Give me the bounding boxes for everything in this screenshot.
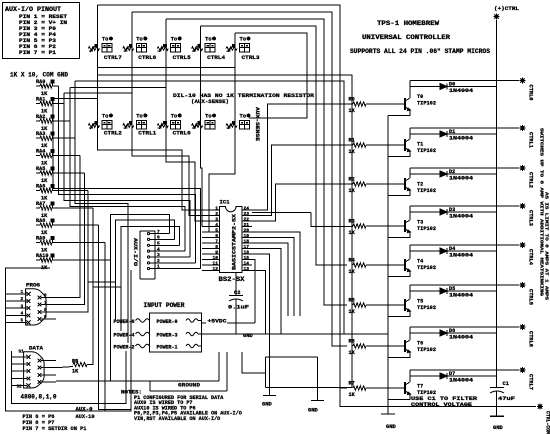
svg-text:(AUX-SENSE): (AUX-SENSE) [191,98,229,105]
svg-text:To: To [205,114,211,120]
svg-text:CTRL6: CTRL6 [138,55,156,61]
svg-text:15: 15 [244,255,250,261]
diode D1 1N4004 [410,133,497,135]
AUX-I/O pinout table box [3,3,80,59]
svg-text:2: 2 [157,258,160,264]
svg-text:CTRL2: CTRL2 [104,131,122,137]
svg-text:21: 21 [244,222,250,228]
terminal CTRL4 [520,244,526,246]
diode D2 1N4004 [410,173,497,175]
wire IC pin19 down [252,238,294,317]
input power box [150,313,202,352]
svg-text:1K: 1K [349,149,356,155]
wire AUX pin chain to POWER-6 row [115,220,174,320]
svg-text:1N4004: 1N4004 [449,335,473,341]
AUX-I/O pin 4 [150,250,185,252]
svg-text:INPUT POWER: INPUT POWER [144,302,185,309]
svg-text:+5VDC: +5VDC [208,319,228,325]
svg-text:1K: 1K [349,392,356,398]
svg-text:1K: 1K [349,230,356,236]
wire collector line T0 to terminal [410,80,519,82]
svg-text:To: To [240,114,246,120]
wire CTRL4 top bus to R4 row [201,26,347,265]
wire (+)CTRL rail [496,20,498,388]
diode D6 1N4004 [410,332,497,334]
svg-text:GND: GND [308,408,318,414]
svg-text:To: To [171,114,177,120]
transistor T6 TIP102 [409,327,411,340]
svg-text:47uF: 47uF [498,396,515,402]
diode D0 1N4004 [410,86,497,88]
diode D4 1N4004 [410,250,497,252]
svg-text:PIN 7 = P1: PIN 7 = P1 [19,49,57,56]
AUX-I/O pin 6 [150,238,175,240]
svg-text:T4: T4 [417,259,423,265]
diode D7 1N4004 [410,375,497,377]
svg-text:1K: 1K [349,269,356,275]
svg-text:CTRL0: CTRL0 [528,85,534,101]
svg-text:TIP102: TIP102 [417,188,436,194]
svg-text:6: 6 [157,235,160,241]
svg-text:20: 20 [244,228,250,234]
svg-text:14: 14 [244,261,250,267]
svg-text:11: 11 [212,261,218,267]
ground symbol B [317,357,319,401]
wire left bus v8 to PROG pin 8 [56,190,88,312]
svg-text:4: 4 [215,222,218,228]
svg-text:19: 19 [244,233,250,239]
transistor T1 TIP102 [409,128,411,139]
wire jog feed to R3 row [252,212,311,214]
svg-text:1K X 10, COM GND: 1K X 10, COM GND [10,72,68,79]
wire AUX top pin chain to DATA pin [111,214,170,381]
svg-text:13: 13 [244,266,250,272]
svg-text:AUX-SENSE: AUX-SENSE [254,107,260,142]
wire collector line T7 to terminal [410,369,519,371]
svg-text:D5: D5 [449,286,455,292]
wire staircase column1 to left bus [53,97,97,99]
svg-text:CTRL4: CTRL4 [528,249,534,265]
transistor T3 TIP102 [409,206,411,220]
svg-text:5: 5 [21,319,24,324]
svg-text:To: To [102,37,108,43]
wire CTRL6 top bus to R6 row [132,12,347,346]
wire staircase column3 to left bus [70,86,166,88]
svg-text:8: 8 [215,244,218,250]
svg-text:CTRL7: CTRL7 [528,374,534,390]
svg-text:1K: 1K [349,350,356,356]
svg-text:16: 16 [244,250,250,256]
AUX-I/O pin 1 [150,268,201,270]
svg-text:2: 2 [21,297,24,302]
svg-text:1K: 1K [349,188,356,194]
svg-text:1K: 1K [349,108,356,114]
svg-text:C2: C2 [234,290,240,296]
svg-text:T5: T5 [417,299,423,305]
svg-text:T1: T1 [417,142,423,148]
svg-text:CTRL2: CTRL2 [528,172,534,188]
svg-text:CTRL6: CTRL6 [528,331,534,347]
wire IC pin16 down to GND symbol A [252,254,270,396]
svg-text:CTRL1: CTRL1 [138,131,156,137]
wire left bus taps to power feeds [88,281,115,283]
svg-text:(+)CTRL: (+)CTRL [494,5,520,12]
svg-text:D2: D2 [449,169,455,175]
svg-text:To: To [171,37,177,43]
IC1 pins [202,209,220,211]
outer aux box [6,268,132,411]
wire left bus v11 to outer box bottom [104,243,106,411]
svg-text:S2: S2 [17,385,23,390]
transistor T0 TIP102 [409,81,411,99]
terminal CTRL0 [520,80,526,82]
svg-text:1N4004: 1N4004 [449,136,473,142]
transistor T4 TIP102 [409,245,411,259]
wire left bus v4 to AUX pin chain [70,87,185,251]
wire riser bus y=81.1 to mid vertical [75,81,344,334]
wire CTRL3 top bus to AUX-SENSE cell [235,33,307,118]
inner data box [12,351,127,404]
wire left bus v6 to PROG pin 6 [56,156,80,298]
svg-text:CONTROL VOLTAGE: CONTROL VOLTAGE [411,402,473,408]
wire left bus v9 to RB [87,208,93,365]
transistor T2 TIP102 [409,168,411,178]
svg-text:9: 9 [44,315,47,320]
wire left bus v5 to POWER-2 row [75,81,128,343]
svg-text:5: 5 [215,228,218,234]
svg-text:PROG: PROG [26,282,41,289]
svg-text:8: 8 [44,308,47,313]
svg-text:D4: D4 [449,246,455,252]
svg-text:GND: GND [493,425,503,431]
svg-text:5: 5 [157,241,160,247]
svg-text:DATA: DATA [29,345,44,352]
svg-text:24: 24 [244,206,250,212]
svg-text:TIP102: TIP102 [417,305,436,311]
transistor T5 TIP102 [409,285,411,299]
svg-text:D3: D3 [449,207,455,213]
svg-text:AUX-0: AUX-0 [76,407,93,413]
wire left bus v7 to PROG pin 7 [56,173,85,305]
terminal CTRL3 [520,205,526,207]
svg-text:To: To [240,37,246,43]
svg-text:BASICSTAMP2-SX: BASICSTAMP2-SX [232,214,238,270]
svg-text:C1: C1 [503,381,509,387]
svg-text:GROUND: GROUND [178,382,201,389]
wire collector line T4 to terminal [410,244,519,246]
capacitor C2 0.1uF [235,273,237,296]
svg-text:17: 17 [244,244,250,250]
svg-text:1N4004: 1N4004 [449,176,473,182]
svg-text:22: 22 [244,217,250,223]
svg-text:UNIVERSAL CONTROLLER: UNIVERSAL CONTROLLER [362,34,450,41]
svg-text:CTRL5: CTRL5 [173,55,191,61]
wire IC pin17 down [252,249,281,335]
svg-text:To: To [136,37,142,43]
svg-text:D6: D6 [449,328,455,334]
svg-text:CTRL0: CTRL0 [173,131,191,137]
svg-text:CTRL5: CTRL5 [528,289,534,305]
svg-text:T3: T3 [417,220,423,226]
svg-text:CTRL3: CTRL3 [242,55,260,61]
ground box lines [56,380,219,382]
AUX-I/O pin 3 [150,256,190,258]
svg-text:PIN 7 = SETDIR ON P1: PIN 7 = SETDIR ON P1 [23,426,87,432]
wire power box to GND symbol B [265,356,317,358]
svg-text:T6: T6 [417,341,423,347]
svg-text:1N4004: 1N4004 [449,88,473,94]
svg-text:1: 1 [21,290,24,295]
wire AUX pin chain to POWER-4 row [121,227,180,331]
wire CTRL7 top bus to R7 row [97,5,347,388]
svg-text:D7: D7 [449,371,455,377]
svg-text:VIN,RST AVAILABLE ON AUX-I/O: VIN,RST AVAILABLE ON AUX-I/O [134,416,220,422]
svg-text:CTRL7: CTRL7 [104,55,122,61]
svg-text:4: 4 [157,246,160,252]
svg-text:POWER-0: POWER-0 [157,319,178,325]
connector AUX-I/O [140,231,155,279]
svg-text:3: 3 [21,304,24,309]
wire IC pin18 down [252,243,288,316]
svg-text:S1: S1 [19,350,25,355]
wire collector line T2 to terminal [410,167,519,169]
svg-text:TPS-1 HOMEBREW: TPS-1 HOMEBREW [377,20,439,27]
terminal CTRL5 [520,284,526,286]
wire CTRL5 top bus to R5 row [166,19,347,305]
wire collector line T6 to terminal [410,326,519,328]
svg-text:12: 12 [212,266,218,272]
svg-text:IC1: IC1 [220,199,231,206]
label +5VDC [201,322,206,324]
wire left bus v2 to AUX pin chain [59,86,196,263]
svg-text:AUX-I/O PINOUT: AUX-I/O PINOUT [5,6,61,13]
svg-text:1N4004: 1N4004 [449,253,473,259]
svg-text:AUX-I/O: AUX-I/O [132,238,138,267]
svg-text:3: 3 [215,217,218,223]
svg-text:0.1uF: 0.1uF [228,305,249,311]
svg-text:1: 1 [215,206,218,212]
svg-text:TIP102: TIP102 [417,265,436,271]
wire IC pin20 down [252,232,300,316]
svg-text:To: To [205,37,211,43]
svg-text:CTRL4: CTRL4 [207,55,226,61]
terminal CTRL2 [520,167,526,169]
diode D3 1N4004 [410,211,497,213]
terminal CTRL7 [520,369,526,371]
svg-text:D0: D0 [449,82,455,88]
svg-text:7: 7 [157,229,160,235]
wire connecting columns at y=67.6 [97,67,235,69]
svg-text:CTRL1: CTRL1 [528,132,534,148]
svg-text:TIP102: TIP102 [417,347,436,353]
svg-text:7: 7 [44,301,47,306]
svg-text:T2: T2 [417,182,423,188]
AUX-I/O pin 7 [150,233,169,235]
svg-text:4800,8,1,0: 4800,8,1,0 [21,394,57,401]
svg-text:7: 7 [215,239,218,245]
svg-text:POWER-4: POWER-4 [114,333,136,339]
wire collector line T1 to terminal [410,127,519,129]
svg-text:GND: GND [262,402,272,408]
svg-text:TIP102: TIP102 [417,226,436,232]
terminal CTRL6 [520,326,526,328]
svg-text:6: 6 [215,233,218,239]
wire collector line T5 to terminal [410,284,519,286]
svg-text:1K: 1K [349,309,356,315]
svg-text:POWER-3: POWER-3 [157,333,178,339]
wire collector line T3 to terminal [410,205,519,207]
svg-text:1N4004: 1N4004 [449,293,473,299]
svg-text:TIP102: TIP102 [417,148,436,154]
svg-text:3: 3 [157,252,160,258]
wire IC pin13 to GND net [252,271,266,335]
terminal CTRL1 [520,127,526,129]
svg-text:18: 18 [244,239,250,245]
svg-text:To: To [136,114,142,120]
svg-text:To: To [102,114,108,120]
svg-text:1N4004: 1N4004 [449,378,473,384]
wire staircase column2 to left bus [64,92,132,94]
svg-text:9: 9 [215,250,218,256]
svg-text:D1: D1 [449,129,455,135]
diode D5 1N4004 [410,290,497,292]
wire ground area to right [265,387,352,389]
wire left bus v3 to AUX pin chain [64,93,190,257]
svg-text:BS2-SX: BS2-SX [219,276,245,283]
wire cell columns down to IC pins [97,5,202,210]
svg-text:1K: 1K [72,369,79,375]
wire power box drop L [242,352,265,373]
IC IC1 BS2-SX DIP-24 [220,207,243,273]
svg-text:AUX-10: AUX-10 [76,414,95,420]
wire left bus v10 to bottom rail [98,225,131,409]
AUX-I/O pin 2 [150,262,195,264]
svg-text:TIP102: TIP102 [417,101,436,107]
svg-text:23: 23 [244,211,250,217]
svg-text:SUPPORTS ALL 24 PIN .06" STAMP: SUPPORTS ALL 24 PIN .06" STAMP MICROS [350,48,490,55]
svg-text:AS IS LIMIT TO 0 AMPS AT 1 AMP: AS IS LIMIT TO 0 AMPS AT 1 AMPS [544,192,550,300]
svg-text:2: 2 [215,211,218,217]
wire IC pin15 down [252,260,255,323]
svg-text:4: 4 [21,312,24,317]
svg-text:1N4004: 1N4004 [449,214,473,220]
svg-text:POWER-1: POWER-1 [157,345,178,351]
svg-text:CTRL-COM: CTRL-COM [545,411,550,434]
svg-text:T0: T0 [417,94,423,100]
svg-text:CTRL3: CTRL3 [528,210,534,226]
AUX-I/O pin 5 [150,244,180,246]
svg-text:10: 10 [212,255,218,261]
wire base feeds rows 0-2 from IC right pins [252,104,353,210]
svg-text:GND: GND [386,424,396,430]
wire left bus v1 to AUX pin chain [53,98,201,268]
wire riser bus y=75.2 to mid vertical [97,75,352,387]
wire emitter bus to GND [387,116,389,415]
svg-text:1: 1 [157,264,160,270]
svg-text:T7: T7 [417,384,423,390]
svg-text:6: 6 [44,294,47,299]
terminal CTRL-COM [340,388,536,407]
transistor T7 TIP102 [409,370,411,382]
